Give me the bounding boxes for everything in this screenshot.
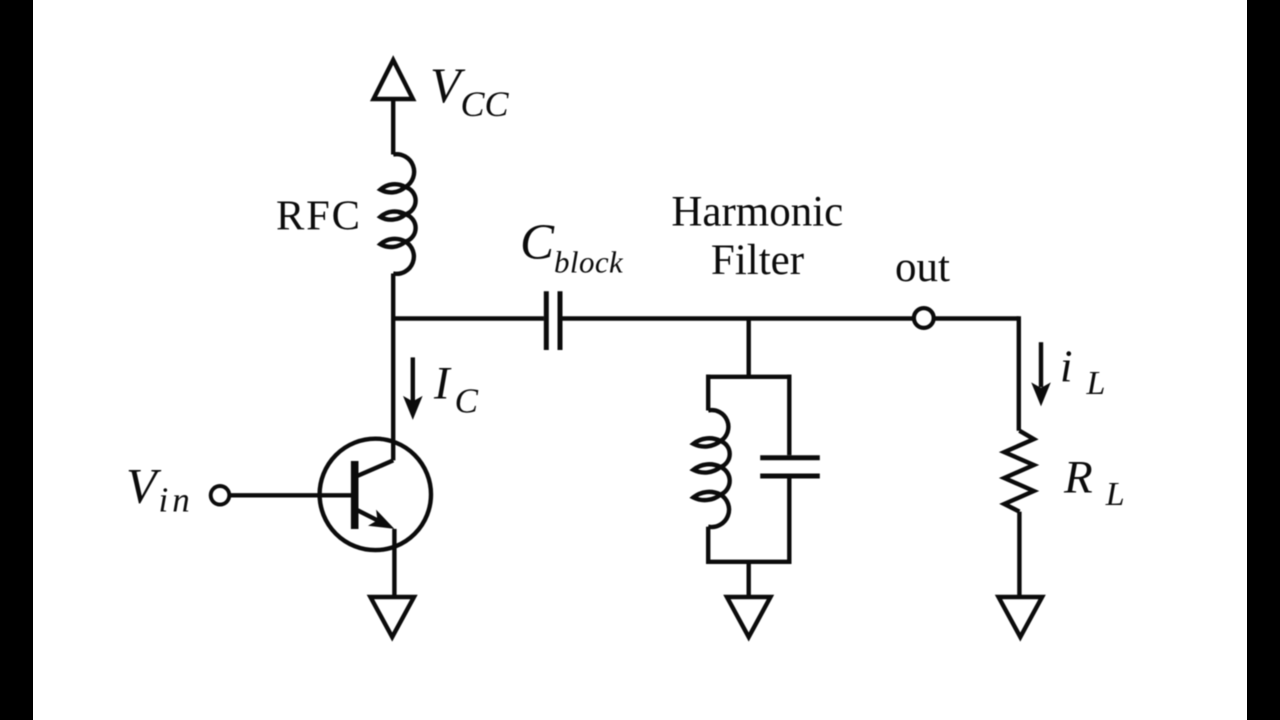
current arrow i_L shaft [1039, 342, 1043, 387]
svg-text:Cblock: Cblock [520, 215, 624, 280]
power VCC symbol [374, 60, 413, 99]
inductor L1 (harmonic filter) [708, 410, 730, 527]
transistor Q1 base bar [351, 461, 359, 529]
terminal out circle [914, 308, 934, 328]
wire out terminal to corner [935, 316, 1019, 320]
wire R_L to ground [1017, 512, 1021, 596]
svg-text:iL: iL [1060, 341, 1105, 402]
wire base lead [229, 493, 351, 497]
transistor Q1 emitter diagonal [356, 510, 377, 521]
transistor Q1 collector diagonal [356, 460, 393, 476]
harmonic filter left rail lower [706, 527, 710, 564]
ground below transistor [370, 597, 414, 637]
inductor RFC loop 3 [380, 239, 405, 247]
svg-text:RL: RL [1063, 452, 1125, 514]
terminal Vin circle [211, 486, 230, 505]
wire VCC stem [391, 99, 395, 155]
capacitor C_block plate left [544, 291, 549, 350]
harmonic filter left rail upper [706, 375, 710, 411]
inductor L1 loop 1 [693, 438, 720, 446]
current arrow I_C shaft [411, 357, 415, 402]
resistor R_L zigzag [1004, 431, 1034, 512]
inductor RFC [393, 154, 415, 274]
svg-text:RFC: RFC [276, 193, 362, 240]
capacitor C1 plate top [760, 455, 820, 460]
harmonic filter bottom rail [706, 560, 792, 564]
ground below harmonic filter [727, 597, 771, 637]
capacitor C1 plate bottom [760, 474, 820, 479]
transistor Q1 body circle [320, 439, 431, 550]
svg-text:Vin: Vin [126, 458, 194, 520]
inductor RFC loop 1 [380, 184, 405, 192]
svg-text:IC: IC [433, 357, 479, 420]
transistor Q1 emitter arrow head [368, 510, 394, 529]
current arrow i_L head [1031, 382, 1051, 406]
wire collector node to C_block [391, 316, 544, 320]
current arrow I_C head [403, 396, 423, 420]
node filter tap [747, 319, 751, 377]
wire corner down to load [1017, 316, 1021, 430]
wire filter to ground [747, 562, 751, 596]
svg-text:Harmonic: Harmonic [671, 189, 843, 236]
capacitor C_block plate right [558, 291, 563, 350]
svg-text:out: out [895, 244, 950, 291]
wire emitter lead [392, 529, 396, 596]
svg-text:VCC: VCC [430, 57, 510, 124]
wire collector lead [391, 318, 395, 460]
wire RFC to collector node [391, 274, 395, 319]
inductor RFC loop 2 [380, 211, 405, 219]
inductor L1 loop 3 [693, 492, 720, 500]
harmonic filter right rail upper [787, 375, 791, 456]
harmonic filter top rail [706, 375, 792, 379]
ground below R_L [999, 597, 1043, 637]
harmonic filter right rail lower [787, 478, 791, 564]
svg-text:Filter: Filter [711, 237, 804, 284]
wire C_block to out terminal [563, 316, 913, 320]
inductor L1 loop 2 [693, 464, 720, 472]
